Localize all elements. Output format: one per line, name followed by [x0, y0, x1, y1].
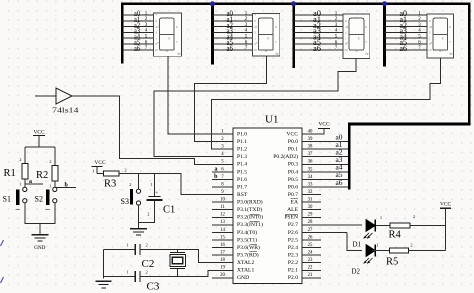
7-segment display DS4 net labels a0-a6: [400, 9, 408, 53]
svg-text:10: 10: [344, 48, 348, 52]
svg-text:RST: RST: [237, 192, 248, 198]
svg-text:P3.6(WR): P3.6(WR): [237, 244, 260, 251]
svg-text:16: 16: [220, 243, 225, 248]
svg-text:26: 26: [308, 235, 313, 240]
svg-text:2: 2: [254, 31, 256, 35]
svg-text:20: 20: [220, 273, 225, 278]
wire DS3 common to U1 pin 4 P1.3: [154, 59, 356, 157]
junction dot bus bar 4: [382, 1, 387, 6]
svg-text:1: 1: [19, 182, 21, 187]
7-segment display DS2 input wires a0-a6: [213, 15, 253, 50]
bus: top horizontal power/signal bus with right-side descent to U1 port bus: [121, 4, 469, 190]
U1 pin 5 P1.4 stub: [212, 160, 247, 168]
7-segment display DS1 input wires a0-a6: [122, 15, 153, 50]
svg-text:S3: S3: [121, 197, 129, 206]
svg-text:6: 6: [155, 19, 157, 23]
svg-text:11: 11: [220, 205, 225, 210]
wire 74ls14 output to U1 pin 5 P1.4: [72, 96, 233, 164]
svg-text:6: 6: [345, 19, 347, 23]
svg-text:1: 1: [376, 243, 378, 248]
7-segment display DS2 body: [252, 13, 279, 56]
svg-text:P2.6: P2.6: [288, 230, 298, 236]
VCC symbol and rail at R4 R5: [440, 202, 451, 251]
svg-text:g: g: [358, 36, 360, 40]
svg-text:5: 5: [245, 35, 248, 40]
wire node to capacitor C1: [153, 174, 155, 197]
bus vertical bar group 3: [292, 4, 295, 68]
svg-text:g: g: [442, 36, 444, 40]
wire to resistor R2: [54, 147, 56, 165]
resistor R5: [390, 248, 409, 253]
net labels a0-a6 at U1 port P0: [336, 132, 343, 186]
wire D2 to R5: [372, 250, 390, 252]
bus vertical bar group 2: [211, 4, 214, 65]
7-segment display DS4 body: [427, 13, 454, 58]
7-segment display DS3 pin numbers 1-7: [335, 11, 338, 51]
U1 pin 12 P3.2(INT0) stub: [212, 213, 263, 221]
IC U1 microcontroller body: [233, 128, 302, 284]
svg-text:36: 36: [308, 160, 313, 165]
svg-text:2: 2: [146, 243, 148, 248]
wire C1 to S3 ground net: [139, 201, 155, 222]
ground below C2 C3: [95, 281, 111, 288]
svg-text:dp: dp: [275, 51, 279, 55]
U1 pin 11 P3.1(TXD) stub: [212, 205, 262, 213]
bus vertical bar group 1: [121, 4, 124, 64]
svg-text:6: 6: [335, 40, 338, 45]
junction dot bus bar 2: [210, 1, 215, 6]
svg-text:4: 4: [145, 29, 148, 34]
svg-text:4: 4: [335, 29, 338, 34]
svg-text:7: 7: [418, 46, 421, 51]
svg-text:P0.7: P0.7: [288, 192, 298, 198]
svg-text:74ls14: 74ls14: [52, 106, 79, 115]
U1 pin 25 P2.4 stub: [288, 243, 321, 251]
svg-text:d: d: [265, 49, 267, 53]
node b stub wire: [55, 186, 76, 188]
wire DS1 common to U1 pin 1 P1.0: [168, 56, 233, 134]
svg-text:P3.1(TXD): P3.1(TXD): [237, 206, 262, 213]
svg-text:P0.6: P0.6: [288, 184, 298, 190]
svg-text:VCC: VCC: [94, 160, 105, 166]
svg-text:14: 14: [220, 228, 225, 233]
svg-text:13: 13: [220, 220, 225, 225]
svg-text:ALE: ALE: [287, 207, 298, 213]
svg-text:VCC: VCC: [33, 130, 44, 136]
svg-text:2: 2: [410, 243, 412, 248]
svg-text:34: 34: [308, 175, 313, 180]
capacitor C3: [103, 270, 147, 282]
svg-text:2: 2: [124, 168, 126, 173]
svg-text:1: 1: [145, 11, 148, 16]
wire R1 to S1: [24, 179, 26, 188]
svg-text:2: 2: [147, 211, 149, 216]
svg-text:31: 31: [308, 198, 313, 203]
svg-text:7: 7: [345, 13, 347, 17]
U1 pin 8 P1.7 stub: [212, 182, 247, 190]
U1 pin 22 P2.1 stub: [288, 266, 321, 274]
svg-text:7: 7: [155, 13, 157, 17]
U1 pin 4 P1.3 stub: [212, 152, 247, 160]
U1 pin 39 P0.0 stub: [288, 137, 348, 145]
svg-text:P2.0: P2.0: [288, 275, 298, 281]
svg-text:23: 23: [308, 258, 313, 263]
VCC symbol at U1 pin 40: [302, 121, 330, 134]
U1 pin 31 EA stub: [291, 198, 321, 206]
svg-text:d: d: [166, 49, 168, 53]
svg-text:3: 3: [418, 23, 421, 28]
svg-text:P0.1: P0.1: [288, 147, 298, 153]
svg-text:a6: a6: [313, 44, 321, 53]
svg-text:32: 32: [308, 190, 313, 195]
svg-text:1: 1: [126, 243, 128, 248]
U1 pin 9 RST stub: [212, 190, 248, 198]
svg-text:P0.0: P0.0: [288, 139, 298, 145]
svg-text:1: 1: [335, 11, 338, 16]
U1 pin 40 VCC stub: [286, 129, 313, 137]
7-segment display DS1 net labels a0-a6: [134, 9, 140, 53]
svg-text:1: 1: [380, 215, 382, 220]
U1 pin 38 P0.1 stub: [288, 145, 348, 153]
svg-text:5: 5: [145, 35, 148, 40]
svg-text:P3.7(RD): P3.7(RD): [237, 252, 259, 259]
svg-text:D2: D2: [352, 268, 361, 276]
VCC symbol at R3: [92, 160, 106, 173]
svg-text:2: 2: [418, 17, 421, 22]
svg-text:P1.5: P1.5: [237, 169, 247, 175]
svg-text:a: a: [29, 179, 32, 185]
svg-text:7: 7: [429, 13, 431, 17]
svg-text:1: 1: [150, 182, 152, 187]
svg-text:C1: C1: [163, 204, 175, 215]
U1 pin 20 GND stub: [212, 273, 249, 281]
U1 pin 13 P3.3(INT1) stub: [212, 220, 263, 228]
U1 pin 36 P0.3 stub: [288, 160, 348, 168]
bus vertical bar group 4: [383, 4, 386, 67]
svg-text:GND: GND: [34, 245, 45, 251]
svg-text:b: b: [275, 25, 277, 29]
svg-text:17: 17: [220, 251, 225, 256]
svg-text:1: 1: [245, 11, 248, 16]
svg-text:P3.5(T1): P3.5(T1): [237, 236, 257, 243]
svg-text:1: 1: [418, 11, 421, 16]
U1 pin 6 P1.5 stub: [212, 167, 247, 175]
svg-text:U1: U1: [265, 114, 278, 126]
svg-text:2: 2: [146, 270, 148, 275]
svg-text:1: 1: [49, 184, 51, 189]
U1 pin 34 P0.5 stub: [288, 175, 348, 183]
svg-text:dp: dp: [365, 51, 369, 55]
svg-text:a6: a6: [227, 44, 234, 53]
switch S2: [46, 187, 57, 209]
svg-text:P1.3: P1.3: [237, 154, 247, 160]
svg-text:6: 6: [429, 19, 431, 23]
svg-text:C2: C2: [142, 258, 155, 270]
svg-text:EA: EA: [291, 200, 298, 206]
svg-text:2: 2: [155, 31, 157, 35]
wire R3 node to RST jog: [119, 174, 233, 195]
svg-text:38: 38: [308, 145, 313, 150]
7-segment display DS4 pin numbers 1-7: [418, 11, 421, 51]
U1 pin 16 P3.6(WR) stub: [212, 243, 260, 251]
svg-text:P1.1: P1.1: [237, 139, 247, 145]
resistor R2: [49, 159, 58, 189]
diode D2 LED: [364, 245, 376, 264]
U1 pin 37 P0.2(AD2) stub: [273, 152, 348, 160]
svg-text:P3.0(RXD): P3.0(RXD): [237, 199, 263, 206]
U1 pin 18 XTAL2 stub: [212, 258, 254, 266]
svg-text:C3: C3: [147, 281, 160, 293]
wire D1 to R4: [375, 224, 390, 226]
svg-text:P2.5: P2.5: [288, 237, 298, 243]
U1 pin 14 P3.4(T0) stub: [212, 228, 257, 236]
7-segment display DS3 net labels a0-a6: [313, 9, 321, 53]
svg-text:XTAL1: XTAL1: [237, 268, 254, 274]
svg-text:P2.1: P2.1: [288, 268, 298, 274]
crystal Y1: [170, 250, 186, 277]
svg-text:2: 2: [245, 17, 248, 22]
U1 pin 24 P2.3 stub: [288, 251, 321, 259]
svg-text:1: 1: [92, 168, 94, 173]
svg-text:2: 2: [413, 214, 415, 219]
svg-text:R5: R5: [386, 257, 398, 268]
svg-text:10: 10: [428, 48, 432, 52]
U1 pin 29 PSEN stub: [284, 213, 321, 221]
svg-text:P2.3: P2.3: [288, 253, 298, 259]
switch S1: [16, 187, 27, 209]
svg-text:7: 7: [254, 13, 256, 17]
svg-text:XTAL2: XTAL2: [237, 260, 254, 266]
svg-text:22: 22: [308, 266, 313, 271]
U1 pin 19 XTAL1 stub: [212, 266, 254, 274]
U1 pin 10 P3.0(RXD) stub: [212, 198, 263, 206]
svg-text:R1: R1: [4, 168, 16, 179]
wire U1 pin 27 P2.6 to D2: [347, 232, 362, 250]
svg-text:dp: dp: [449, 51, 453, 55]
svg-text:7: 7: [145, 46, 148, 51]
junction dot bus bar 3: [291, 1, 296, 6]
resistor R4: [390, 223, 410, 228]
svg-text:P0.5: P0.5: [288, 177, 298, 183]
svg-text:4: 4: [245, 29, 248, 34]
svg-text:10: 10: [220, 198, 225, 203]
U1 pin 28 P2.7 stub: [288, 220, 362, 228]
svg-text:P1.0: P1.0: [237, 131, 247, 137]
svg-text:VCC: VCC: [318, 121, 329, 127]
svg-text:5: 5: [418, 35, 421, 40]
wire S3 to ground: [138, 205, 140, 229]
svg-text:37: 37: [308, 152, 313, 157]
wire DS2 common to U1 pin 2 P1.1: [195, 56, 267, 142]
inverter 74ls14 input wire: [35, 95, 56, 97]
svg-text:2: 2: [145, 17, 148, 22]
7-segment display DS4 input wires a0-a6: [385, 15, 427, 50]
svg-text:6: 6: [254, 19, 256, 23]
svg-text:S2: S2: [35, 195, 43, 204]
svg-text:D1: D1: [353, 241, 362, 249]
U1 left pin active-low overlines: [250, 214, 260, 252]
inverter U2 74ls14: [56, 88, 72, 104]
wire C3 to XTAL1 pin 19: [140, 270, 233, 276]
svg-text:b: b: [366, 25, 368, 29]
U1 pin 2 P1.1 stub: [212, 137, 247, 145]
capacitor C1 polarized: [147, 182, 163, 216]
svg-text:15: 15: [220, 235, 225, 240]
svg-text:d: d: [440, 49, 442, 53]
svg-text:P0.2(AD2): P0.2(AD2): [273, 153, 298, 160]
svg-text:28: 28: [308, 220, 313, 225]
wire to resistor R1: [24, 147, 26, 163]
svg-text:2: 2: [345, 31, 347, 35]
svg-text:24: 24: [308, 251, 313, 256]
svg-text:a6: a6: [134, 44, 140, 53]
svg-text:R4: R4: [389, 229, 402, 240]
svg-text:2: 2: [429, 31, 431, 35]
svg-text:7: 7: [245, 46, 248, 51]
svg-text:30: 30: [308, 205, 313, 210]
svg-text:a6: a6: [336, 178, 343, 187]
svg-text:1: 1: [126, 270, 128, 275]
wire node to switch S3: [138, 174, 140, 190]
svg-text:2: 2: [129, 182, 131, 187]
7-segment display DS1 pin numbers 1-7: [145, 11, 148, 51]
svg-text:P2.7: P2.7: [288, 222, 298, 228]
7-segment display DS3 body: [343, 13, 370, 58]
svg-text:b: b: [176, 25, 178, 29]
7-segment display DS2 net labels a0-a6: [227, 9, 234, 53]
svg-text:P2.4: P2.4: [288, 245, 298, 251]
U1 pin 27 P2.6 stub: [288, 228, 347, 236]
svg-text:25: 25: [308, 243, 313, 248]
svg-text:g: g: [168, 36, 170, 40]
svg-text:3: 3: [245, 23, 248, 28]
svg-text:R3: R3: [104, 178, 116, 189]
svg-text:P3.2(INT0): P3.2(INT0): [237, 214, 263, 221]
U1 right pin active-low overlines EA PSEN: [285, 199, 298, 214]
svg-text:P0.3: P0.3: [288, 162, 298, 168]
svg-text:S1: S1: [3, 194, 11, 203]
wire S1 S2 commons to ground: [25, 203, 55, 235]
U1 pin 17 P3.7(RD) stub: [212, 251, 259, 259]
U1 pin 32 P0.7 stub: [288, 190, 321, 198]
scan artifact marks left edge: [1, 240, 4, 283]
svg-text:5: 5: [335, 35, 338, 40]
svg-text:PSEN: PSEN: [284, 215, 298, 221]
svg-text:6: 6: [418, 40, 421, 45]
svg-text:P2.2: P2.2: [288, 260, 298, 266]
svg-text:GND: GND: [237, 275, 249, 281]
U1 pin 23 P2.2 stub: [288, 258, 321, 266]
ground GND below S1 S2: [31, 235, 48, 251]
U1 pin 26 P2.5 stub: [288, 235, 321, 243]
svg-text:29: 29: [308, 213, 313, 218]
svg-text:P3.3(INT1): P3.3(INT1): [237, 221, 263, 228]
svg-text:33: 33: [308, 182, 313, 187]
svg-text:6: 6: [145, 40, 148, 45]
svg-text:P0.4: P0.4: [288, 169, 298, 175]
svg-text:3: 3: [145, 23, 148, 28]
svg-text:2: 2: [49, 159, 51, 164]
wire C2 to XTAL2 pin 18: [140, 250, 233, 263]
diode D1 LED: [364, 219, 376, 238]
svg-text:g: g: [267, 36, 269, 40]
svg-text:VCC: VCC: [286, 131, 298, 137]
node a stub wire: [25, 183, 43, 185]
svg-text:21: 21: [308, 273, 313, 278]
svg-text:b: b: [449, 25, 451, 29]
svg-text:R2: R2: [36, 170, 48, 181]
svg-text:35: 35: [308, 167, 313, 172]
U1 pin 1 P1.0 stub: [212, 129, 247, 137]
svg-text:P1.2: P1.2: [237, 147, 247, 153]
wire left rail of C2 C3: [102, 250, 104, 279]
resistor R3: [97, 168, 127, 177]
U1 pin 3 P1.2 stub: [212, 145, 247, 153]
wire DS4 common to U1 pin 3 P1.2: [211, 58, 440, 149]
resistor R1: [19, 157, 28, 186]
svg-text:6: 6: [245, 40, 248, 45]
7-segment display DS2 pin numbers 1-7: [245, 11, 248, 51]
wire VCC split to R1 and R2: [25, 146, 55, 148]
switch S3: [129, 182, 140, 205]
U1 pin 33 P0.6 stub: [288, 182, 348, 190]
svg-text:2: 2: [335, 17, 338, 22]
svg-text:10: 10: [155, 48, 159, 52]
svg-text:a: a: [215, 167, 218, 173]
svg-text:d: d: [356, 49, 358, 53]
U1 pin 15 P3.5(T1) stub: [212, 235, 257, 243]
svg-text:3: 3: [335, 23, 338, 28]
svg-text:P1.4: P1.4: [237, 162, 247, 168]
svg-text:12: 12: [220, 213, 225, 218]
U1 pin 35 P0.4 stub: [288, 167, 348, 175]
svg-text:39: 39: [308, 137, 313, 142]
U1 pin 21 P2.0 stub: [288, 273, 321, 281]
svg-text:7: 7: [335, 46, 338, 51]
capacitor C2: [103, 243, 147, 255]
wire R2 to S2: [54, 181, 56, 188]
7-segment display DS1 body: [153, 13, 181, 56]
U1 pin 30 ALE stub: [287, 205, 321, 213]
svg-text:27: 27: [308, 228, 313, 233]
U1 pin 7 P1.6 stub: [212, 175, 247, 183]
svg-text:VCC: VCC: [440, 202, 451, 208]
wire R4 to VCC rail: [410, 224, 446, 226]
VCC symbol above R1 R2: [33, 130, 45, 148]
svg-text:+: +: [155, 190, 158, 196]
svg-text:4: 4: [418, 29, 421, 34]
ground below S3 C1: [130, 229, 147, 235]
svg-text:a6: a6: [400, 44, 408, 53]
wire R5 to VCC rail: [409, 250, 446, 252]
svg-text:P1.6: P1.6: [237, 177, 247, 183]
svg-text:P3.4(T0): P3.4(T0): [237, 229, 257, 236]
7-segment display DS3 input wires a0-a6: [294, 15, 343, 50]
svg-text:10: 10: [253, 48, 257, 52]
svg-text:dp: dp: [177, 51, 181, 55]
svg-text:2: 2: [19, 157, 21, 162]
svg-text:P1.7: P1.7: [237, 184, 247, 190]
